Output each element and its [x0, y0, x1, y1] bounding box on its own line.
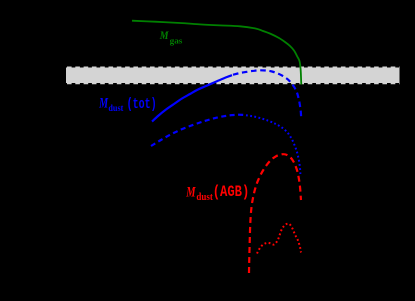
svg-text:(AGB): (AGB): [213, 183, 250, 201]
svg-text:gas: gas: [170, 35, 184, 45]
svg-text:dust: dust: [108, 104, 124, 114]
svg-text:M: M: [159, 28, 169, 42]
svg-text:(tot): (tot): [127, 96, 157, 113]
svg-text:M: M: [98, 96, 108, 112]
svg-text:M: M: [186, 185, 196, 201]
svg-text:dust: dust: [196, 192, 213, 203]
